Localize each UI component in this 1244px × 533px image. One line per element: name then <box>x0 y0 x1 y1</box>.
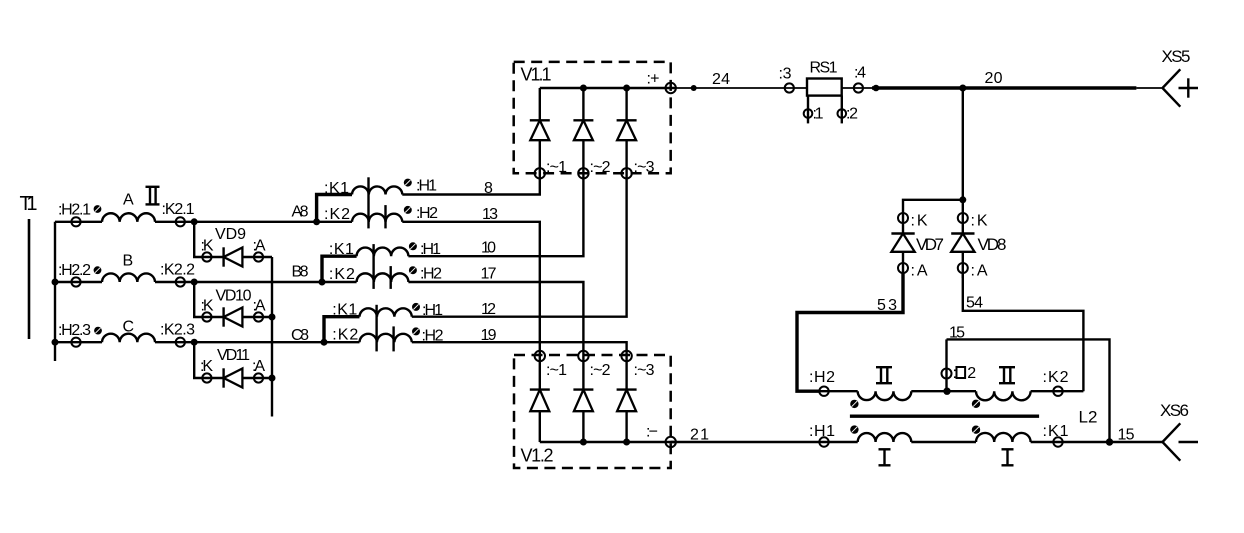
node C8 junction <box>291 327 328 346</box>
reactor L2 core bar <box>850 415 1039 418</box>
RS1 sense pin 1 <box>804 96 824 124</box>
terminal L2 tap 2 <box>942 339 977 391</box>
polarity dot transformer C H2 <box>412 327 420 335</box>
wire drop to VD10 <box>194 282 223 317</box>
reactor L2 terminal H2 <box>809 369 835 396</box>
svg-text::K2: :K2 <box>329 266 355 283</box>
saturable transformer A K2 label <box>324 206 350 223</box>
svg-text::H2: :H2 <box>416 205 438 222</box>
transformer B H1 label <box>420 241 441 258</box>
svg-text::1: :1 <box>813 106 824 123</box>
terminal K2.2 <box>160 262 195 287</box>
svg-text:54: 54 <box>966 295 983 312</box>
junction VD11 anode <box>269 375 276 382</box>
svg-text::H1: :H1 <box>809 423 835 440</box>
winding II mark right <box>999 367 1015 383</box>
transformer A H1 label <box>416 178 437 195</box>
diode VD9 <box>201 226 273 267</box>
diode VD7 <box>891 213 944 280</box>
shunt RS1 <box>807 60 842 96</box>
diode V1.1-1 <box>530 88 550 179</box>
junction node 24 <box>691 85 697 91</box>
wire node 20 thick rail <box>872 70 1136 88</box>
junction V1.2 bus col2 <box>580 439 587 446</box>
svg-text::K: :K <box>201 298 214 315</box>
winding II mark (phase A) <box>146 187 160 205</box>
winding C (T1 phase C) <box>102 319 155 343</box>
polarity dot transformer A H2 <box>404 206 412 214</box>
wire left bus vertical <box>54 222 56 361</box>
wire K2.1 to node A8 <box>155 221 352 223</box>
svg-text::K1: :K1 <box>1043 423 1069 440</box>
svg-text::H2: :H2 <box>809 369 835 386</box>
winding I mark left <box>879 449 891 465</box>
terminal V1.2 ~2 <box>578 351 610 379</box>
terminal V1.1 plus <box>647 71 676 94</box>
winding I mark right <box>1002 449 1014 465</box>
junction on left bus row C <box>52 339 59 346</box>
saturable transformer A core line 2 <box>384 205 386 228</box>
svg-text:A: A <box>123 192 134 209</box>
svg-text::H2.3: :H2.3 <box>58 322 91 339</box>
saturable transformer B core line 1 <box>372 244 374 289</box>
reactor L2 winding I right <box>976 433 1031 442</box>
svg-text:T1: T1 <box>20 193 38 215</box>
wire node 15 upper <box>947 325 1110 442</box>
node A8 junction <box>292 204 321 226</box>
saturable transformer B top winding K1-H1 <box>357 248 409 257</box>
svg-text:V1.2: V1.2 <box>521 446 554 466</box>
saturable transformer C top winding K1-H1 <box>360 308 412 316</box>
svg-text:C: C <box>123 319 135 336</box>
wire row A left <box>55 221 102 223</box>
terminal H2.2 <box>58 262 91 287</box>
junction V1.1 bus col3 <box>623 85 630 92</box>
svg-text::K1: :K1 <box>329 241 354 258</box>
svg-text:19: 19 <box>481 327 497 344</box>
saturable transformer B K1 label <box>329 241 354 258</box>
polarity dot winding A <box>94 205 102 213</box>
saturable transformer A core line 1 <box>367 177 369 228</box>
diode V1.2-2 <box>573 351 593 442</box>
terminal H2.3 <box>58 322 91 347</box>
junction L2 tap <box>943 388 950 395</box>
wire row B left <box>55 281 102 283</box>
wire H1-A to V1.1 ~1 <box>402 179 540 197</box>
RS1 sense pin 2 <box>838 96 859 124</box>
svg-text::K1: :K1 <box>332 302 357 319</box>
V1.2 minus bus <box>540 441 677 443</box>
junction on left bus row B <box>52 279 59 286</box>
wire branch down to VD7 VD8 <box>962 88 964 234</box>
terminal V1.2 ~1 <box>535 351 567 379</box>
junction K2.3 node <box>191 339 198 346</box>
svg-text::K: :K <box>201 238 214 255</box>
connector XS5 <box>1162 47 1191 107</box>
svg-text::H2.1: :H2.1 <box>58 202 91 219</box>
svg-text:2: 2 <box>967 365 976 382</box>
svg-text::4: :4 <box>854 65 866 82</box>
saturable transformer A top winding K1-H1 <box>352 186 402 194</box>
svg-text::~2: :~2 <box>590 362 611 379</box>
junction V1.1 bus col2 <box>580 85 587 92</box>
svg-text:20: 20 <box>985 70 1003 87</box>
svg-text::−: :− <box>646 424 658 441</box>
svg-text:VD11: VD11 <box>217 347 250 364</box>
svg-text:12: 12 <box>481 301 496 318</box>
svg-text::~3: :~3 <box>634 362 655 379</box>
diode V1.1-3 <box>617 88 637 179</box>
wire K2.2 to node B8 <box>155 281 357 283</box>
winding II mark left <box>876 367 892 383</box>
wire H1-B to V1.1 ~2 <box>408 179 583 257</box>
junction node 15 <box>1106 438 1113 445</box>
junction V1.2 bus col3 <box>623 439 630 446</box>
svg-text::K2.3: :K2.3 <box>160 322 195 339</box>
svg-text:B: B <box>123 253 134 270</box>
wire row C left <box>55 341 102 343</box>
svg-text:L2: L2 <box>1079 408 1098 427</box>
junction VD10 anode <box>269 314 276 321</box>
wire winding II to K2 <box>1031 390 1084 392</box>
svg-text::H2: :H2 <box>420 266 442 283</box>
terminal RS1 pin 4 <box>854 65 866 93</box>
junction node 20 branch <box>959 85 966 92</box>
wire winding I middle <box>911 441 976 443</box>
svg-text::K2: :K2 <box>324 206 350 223</box>
terminal V1.1 ~2 <box>578 159 610 179</box>
svg-text::~1: :~1 <box>546 362 567 379</box>
svg-text:10: 10 <box>481 240 496 257</box>
svg-text::A: :A <box>252 358 265 375</box>
diode V1.2-3 <box>617 351 637 442</box>
reactor L2 winding II right <box>976 391 1031 400</box>
reactor L2 terminal K1 <box>1043 423 1069 447</box>
wire node 24 <box>676 71 807 88</box>
XS5 plus sign <box>1179 78 1199 97</box>
diode V1.1-2 <box>573 88 593 179</box>
polarity dot winding B <box>94 266 102 274</box>
terminal H2.1 <box>58 202 91 227</box>
wire winding I to K1 <box>1031 441 1163 443</box>
wire node 54 <box>963 273 1084 391</box>
polarity dot winding C <box>94 327 102 335</box>
diode VD10 <box>201 288 273 327</box>
wire RS1 to pin4 <box>842 87 873 89</box>
wire node 53 thick <box>797 273 903 391</box>
svg-text:XS5: XS5 <box>1162 47 1191 66</box>
terminal V1.1 ~1 <box>535 159 567 179</box>
polarity dot transformer C H1 <box>412 303 420 311</box>
svg-text:C8: C8 <box>291 327 309 344</box>
saturable transformer C K1 label <box>332 302 357 319</box>
winding A (T1 phase A) <box>102 192 155 222</box>
terminal V1.2 minus <box>646 424 676 448</box>
terminal K2.1 <box>162 201 195 226</box>
V1.1 plus bus <box>540 87 677 89</box>
rectifier block V1.1 dashed box <box>514 62 671 173</box>
reactor L2 terminal K2 <box>1043 369 1069 396</box>
wire H2-B to V1.2 ~2 <box>408 266 583 351</box>
L2 label <box>1079 408 1098 427</box>
wire H2 to winding II <box>819 390 857 392</box>
transformer C H1 label <box>422 302 443 319</box>
terminal V1.1 ~3 <box>621 159 654 179</box>
svg-text:VD9: VD9 <box>215 226 246 243</box>
svg-text::A: :A <box>253 298 266 315</box>
saturable transformer C bottom winding K2-H2 <box>360 334 412 342</box>
svg-text:VD10: VD10 <box>216 288 252 305</box>
polarity dot L2 II right <box>972 400 980 408</box>
transformer C H2 label <box>422 328 444 345</box>
saturable transformer B K2 label <box>329 266 355 283</box>
svg-text:8: 8 <box>484 180 493 197</box>
junction K2.2 node <box>191 279 198 286</box>
diode VD8 <box>951 213 1006 280</box>
svg-text::~1: :~1 <box>546 159 567 176</box>
terminal K2.3 <box>160 322 195 347</box>
svg-text::K2: :K2 <box>1043 369 1069 386</box>
wire drop to VD9 <box>194 222 223 257</box>
svg-text::K2.2: :K2.2 <box>160 262 195 279</box>
wire A8 to K1 winding (thick elbow) <box>317 195 352 222</box>
polarity dot L2 I right <box>972 426 980 434</box>
saturable transformer A bottom winding K2-H2 <box>352 214 402 222</box>
saturable transformer B bottom winding K2-H2 <box>357 273 409 282</box>
wire to XS5 <box>1136 87 1162 89</box>
terminal RS1 pin 3 <box>779 66 794 93</box>
saturable transformer C K2 label <box>332 327 358 344</box>
saturable transformer C core line 2 <box>392 326 394 351</box>
svg-text::H2.2: :H2.2 <box>58 262 91 279</box>
rectifier block V1.2 dashed box <box>514 355 671 468</box>
wire H1-C to V1.1 ~3 <box>412 179 627 318</box>
reactor L2 terminal H1 <box>809 423 835 447</box>
wire diode return bus vertical <box>271 257 273 417</box>
svg-text::~3: :~3 <box>634 159 655 176</box>
polarity dot transformer B H1 <box>409 242 417 250</box>
winding B (T1 phase B) <box>102 253 155 283</box>
svg-text:15: 15 <box>949 325 965 342</box>
saturable transformer A primary K1 label <box>324 180 349 197</box>
wire to VD7 cathode <box>903 200 963 234</box>
svg-text:A8: A8 <box>292 204 309 221</box>
reactor L2 winding II left <box>858 391 912 400</box>
svg-text::A: :A <box>253 238 266 255</box>
transformer T1 core bar <box>28 219 31 339</box>
wire H2-A to V1.2 ~1 <box>402 206 540 351</box>
svg-text:XS6: XS6 <box>1160 401 1189 420</box>
polarity dot L2 II left <box>850 400 858 408</box>
connector XS6 <box>1160 401 1189 461</box>
polarity dot transformer A H1 <box>404 179 412 187</box>
svg-text::3: :3 <box>779 66 792 83</box>
wire K2.3 to node C8 <box>155 341 360 343</box>
diode V1.2-1 <box>530 351 550 442</box>
svg-text:21: 21 <box>690 427 709 444</box>
saturable transformer C core line 1 <box>375 305 377 352</box>
wire B8 to K1 winding (thick elbow) <box>322 256 357 282</box>
terminal V1.2 ~3 <box>621 351 654 379</box>
svg-text::K: :K <box>971 213 988 230</box>
svg-text:VD7: VD7 <box>916 235 944 254</box>
svg-text:VD8: VD8 <box>978 235 1007 254</box>
svg-text::+: :+ <box>647 71 660 88</box>
svg-text::H1: :H1 <box>416 178 437 195</box>
junction K2.1 node <box>191 218 198 225</box>
svg-text::K2: :K2 <box>332 327 358 344</box>
svg-text::A: :A <box>911 263 928 280</box>
reactor L2 winding I left <box>858 433 912 442</box>
wire winding II middle <box>911 390 976 392</box>
svg-text::~2: :~2 <box>590 159 611 176</box>
polarity dot transformer B H2 <box>409 266 417 274</box>
diode VD11 <box>200 347 272 388</box>
polarity dot L2 I left <box>850 425 858 433</box>
wire H2-C to V1.2 ~3 <box>412 327 627 351</box>
wire C8 to K1 winding (thick elbow) <box>324 317 360 343</box>
saturable transformer B core line 2 <box>390 266 392 289</box>
wire K1 to node 15 <box>1118 427 1135 444</box>
node B8 junction <box>292 264 326 286</box>
svg-text::K2.1: :K2.1 <box>162 201 195 218</box>
XS6 minus sign <box>1179 441 1199 443</box>
transformer B H2 label <box>420 266 442 283</box>
wire minus rail to H1 <box>671 427 858 444</box>
svg-text::K1: :K1 <box>324 180 349 197</box>
svg-text:24: 24 <box>712 71 730 88</box>
transformer T1 label <box>20 193 38 215</box>
svg-text:13: 13 <box>482 206 498 223</box>
svg-text::K: :K <box>911 213 928 230</box>
wire drop to VD11 <box>194 342 223 378</box>
svg-text:RS1: RS1 <box>810 60 838 77</box>
svg-text::K: :K <box>200 358 213 375</box>
junction after pin4 <box>873 85 880 92</box>
svg-text:17: 17 <box>481 266 497 283</box>
svg-text::2: :2 <box>846 106 858 123</box>
svg-text:B8: B8 <box>292 264 309 281</box>
transformer A H2 label <box>416 205 438 222</box>
svg-text::A: :A <box>971 263 988 280</box>
svg-text:15: 15 <box>1118 427 1135 444</box>
junction VD7 branch <box>959 196 966 203</box>
svg-text:V1.1: V1.1 <box>521 65 552 85</box>
